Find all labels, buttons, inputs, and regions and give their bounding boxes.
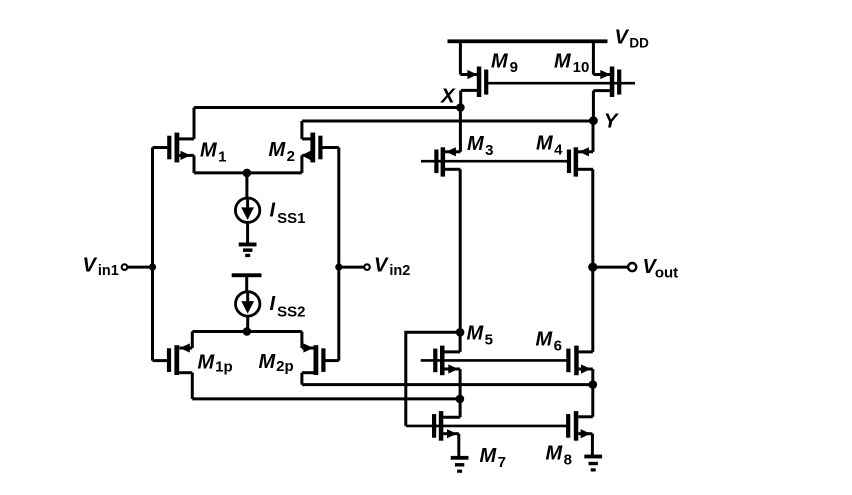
svg-text:M8: M8 [546, 443, 573, 469]
wire supply bar to ISS2 [245, 277, 248, 293]
transistor M8 [566, 411, 593, 441]
wire M1-M2 common source line [194, 171, 302, 174]
transistor M2p [302, 343, 339, 375]
label M1 [200, 140, 227, 166]
transistor M7 [432, 411, 460, 441]
wire M2 drain to node Y [302, 120, 593, 123]
label M2p [259, 351, 294, 375]
ground under M8 [584, 455, 602, 472]
node M6 source / M8 drain [589, 380, 598, 389]
node Vin2 [335, 264, 342, 271]
label M8 [546, 443, 573, 469]
wire M2p drain down [300, 373, 303, 385]
svg-text:VDD: VDD [615, 27, 650, 51]
label M5 [467, 323, 494, 349]
svg-text:M2: M2 [269, 139, 296, 165]
svg-text:M7: M7 [480, 445, 507, 471]
wire M9 gate to M10 gate [488, 82, 636, 85]
svg-text:M5: M5 [467, 323, 494, 349]
wire M7 source to ground [457, 434, 460, 457]
wire Vin2 vertical [337, 148, 340, 361]
label M7 [480, 445, 507, 471]
wire Vout lead [593, 266, 628, 269]
wire M5 gate line to M6 gate [421, 359, 569, 362]
node M5 drain [456, 328, 465, 337]
transistor M4 [567, 147, 593, 176]
wire VDD rail to M10 source [592, 42, 595, 75]
VDD rail [448, 39, 608, 43]
transistor M9 [460, 67, 488, 98]
wire M1p drain to M5-M7 node [192, 397, 460, 400]
current source ISS2 [236, 292, 260, 316]
svg-text:M1: M1 [200, 140, 227, 166]
ground under ISS1 [239, 243, 257, 258]
label Vout [643, 256, 679, 282]
supply bar above ISS2 [232, 273, 262, 277]
svg-text:Vout: Vout [643, 256, 679, 282]
wire ISS2 to tail of second pair [246, 316, 249, 332]
wire M7 gate line to M8 gate [406, 425, 568, 428]
current source ISS1 [235, 198, 259, 222]
node M5 source / M7 drain [456, 395, 465, 404]
wire M10 drain to node Y [592, 91, 595, 121]
wire source line down to M1p [191, 332, 194, 349]
transistor M1p [153, 343, 193, 375]
label VDD [615, 27, 650, 51]
transistor M1 [153, 133, 195, 163]
svg-text:M1p: M1p [198, 352, 233, 376]
terminal Vin2 [364, 264, 370, 270]
label ISS2 [270, 293, 306, 321]
label Y [604, 110, 620, 133]
svg-text:X: X [440, 85, 456, 108]
node Vin1 [149, 264, 156, 271]
wire node X down to M3 source [459, 108, 462, 152]
label M6 [536, 329, 563, 355]
wire M1p drain down [191, 373, 194, 399]
wire M3 gate line to M4 gate [421, 160, 569, 163]
svg-text:M4: M4 [536, 133, 563, 159]
node tail of first pair [243, 169, 252, 178]
terminal Vin1 [122, 264, 128, 270]
wire node down to M7 drain [459, 399, 462, 417]
wire M5 source down to node [459, 369, 462, 399]
svg-text:M10: M10 [554, 51, 589, 77]
wire M5 node down to M5 drain lead [459, 332, 462, 352]
wire M4 drain down to M6 [591, 169, 594, 352]
svg-text:M3: M3 [467, 133, 494, 159]
wire M3 drain down to node M5 [459, 169, 462, 332]
svg-text:M6: M6 [536, 329, 563, 355]
node Vout [588, 263, 597, 272]
svg-text:M9: M9 [491, 51, 518, 77]
label Vin1 [83, 255, 119, 280]
svg-text:Vin2: Vin2 [374, 255, 410, 280]
svg-text:Y: Y [604, 110, 620, 133]
label M4 [536, 133, 563, 159]
terminal Vout [628, 263, 636, 271]
wire node Y down to M4 source [592, 121, 595, 152]
wire M1 source down [193, 155, 196, 173]
node X [456, 103, 465, 112]
label M3 [467, 133, 494, 159]
wire M1 drain to node X [194, 106, 460, 109]
wire M2 drain up to Y line [300, 121, 303, 139]
wire Vin1 vertical [151, 148, 154, 361]
transistor M5 [433, 346, 460, 376]
node Y [589, 116, 598, 125]
node tail of second pair [243, 327, 252, 336]
transistor M6 [566, 346, 593, 376]
label M1p [198, 352, 233, 376]
label M10 [554, 51, 589, 77]
transistor M10 [593, 67, 621, 98]
wire M1p-M2p common source line [192, 330, 302, 333]
wire source line down to M2p [300, 332, 303, 349]
wire M9 drain to node X [459, 90, 462, 107]
label Vin2 [374, 255, 410, 280]
wire tail node to ISS1 [245, 173, 248, 199]
wire Vin2 lead [339, 266, 364, 269]
wire M1 drain up to X line [193, 108, 196, 139]
wire M2p drain to M6-M8 node [302, 383, 593, 386]
wire M6 source down to node [591, 369, 594, 385]
wire ISS1 to ground [246, 222, 249, 243]
wire VDD rail to M9 source [459, 42, 462, 75]
label X [440, 85, 456, 108]
ground under M7 [451, 456, 469, 473]
label M9 [491, 51, 518, 77]
transistor M2 [301, 133, 339, 163]
wire node down to M8 drain [591, 385, 594, 417]
wire Vin1 lead [128, 266, 153, 269]
wire M8 source to ground [591, 434, 594, 455]
svg-text:ISS2: ISS2 [270, 293, 306, 321]
svg-text:Vin1: Vin1 [83, 255, 119, 280]
wire M5 node to M7 gate branch [406, 332, 460, 426]
transistor M3 [434, 147, 460, 176]
wire M2 source down [300, 155, 303, 173]
label ISS1 [270, 200, 306, 228]
svg-text:M2p: M2p [259, 351, 294, 375]
svg-text:ISS1: ISS1 [270, 200, 306, 228]
label M2 [269, 139, 296, 165]
